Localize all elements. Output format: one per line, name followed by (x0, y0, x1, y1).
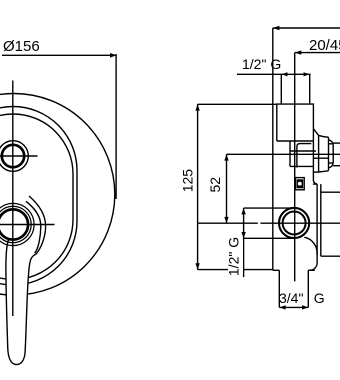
cap facet lines (329, 143, 334, 145)
nut facet line (313, 157, 328, 159)
transition fillet (304, 237, 317, 254)
3/4 dim line (279, 306, 308, 308)
svg-text:Ø156: Ø156 (3, 38, 40, 55)
white mask behind rotated 1/2G bottom text (228, 240, 243, 274)
handle collar inner arc (26, 201, 41, 253)
cartridge horizontal centerline (198, 222, 340, 224)
1/2G top leader line (237, 73, 311, 75)
side fitting rect top (321, 191, 340, 193)
svg-text:125: 125 (179, 169, 195, 193)
52 dim line (226, 154, 228, 223)
cartridge circle inner (283, 212, 306, 235)
20/45 dim line 1 (273, 27, 340, 29)
top knob inner circle (2, 145, 24, 167)
vertical centerline (12, 81, 14, 317)
svg-text:20/45: 20/45 (309, 37, 340, 54)
top fitting chamfer and nut (313, 129, 328, 138)
plate inner contour (0, 114, 73, 280)
fitting stub lines to edge (333, 142, 340, 144)
main knob ring outer (0, 203, 34, 245)
svg-text:3/4": 3/4" (279, 290, 303, 306)
top knob horizontal centerline (0, 155, 38, 157)
top block (277, 104, 314, 141)
main knob ring middle (0, 206, 31, 242)
svg-text:G: G (314, 290, 325, 306)
pipe axis line (294, 53, 296, 282)
body bottom (273, 269, 280, 271)
svg-text:1/2" G: 1/2" G (242, 56, 281, 72)
neck (289, 141, 291, 166)
top knob outer circle (0, 141, 28, 172)
svg-text:52: 52 (207, 177, 223, 193)
body right edge to shoulder corner (313, 129, 317, 184)
escutcheon outer circle Ø156 (0, 94, 115, 296)
nut end cap (329, 140, 334, 168)
125 dim line (197, 104, 199, 269)
wall plane / body back edge (272, 28, 274, 270)
top pipe (280, 74, 282, 104)
lever handle outline (6, 240, 36, 365)
side fitting flange back line (320, 184, 322, 256)
20/45 dim line 2 (295, 52, 340, 54)
screw detail (295, 178, 304, 190)
main knob horizontal centerline (0, 224, 55, 226)
cartridge circle outer (279, 208, 309, 238)
dimension Ø156 leader (2, 54, 116, 56)
svg-text:1/2" G: 1/2" G (226, 237, 242, 276)
handle collar outer arc (29, 196, 46, 255)
main knob ring inner thick (0, 209, 28, 239)
side fitting rect bottom (321, 255, 340, 257)
lever handle white mask (6, 240, 36, 365)
side fitting flange front line (316, 184, 318, 262)
bottom pipe (278, 270, 280, 307)
front cover plate (297, 144, 311, 168)
bottom right corner (308, 262, 317, 270)
plate outer contour (obround) (0, 107, 77, 286)
1/2G bottom leader (243, 208, 245, 277)
inlet silhouette line (291, 150, 317, 152)
